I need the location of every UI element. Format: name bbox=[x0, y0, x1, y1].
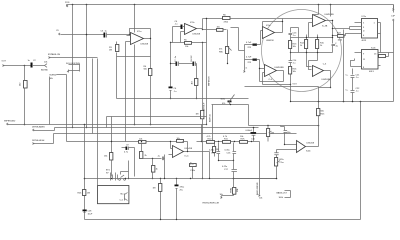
wire below ellipse bbox=[263, 84, 291, 86]
wire bracket bbox=[333, 27, 350, 30]
op-amp U1A bbox=[126, 31, 149, 46]
capacitor C10 series x254 y44.5 bbox=[245, 31, 263, 50]
IC box U2A bbox=[350, 16, 381, 42]
resistor R26 x84.5 bbox=[78, 190, 91, 196]
wire vertical x124.6 bbox=[125, 42, 127, 142]
wire U4B out bbox=[324, 71, 331, 88]
junction top rail x87 bbox=[86, 4, 88, 6]
wire vertical x137 bbox=[134, 5, 136, 125]
svg-text:BASS-DRIVE: BASS-DRIVE bbox=[256, 182, 259, 195]
wire vertical x361 long bbox=[360, 102, 362, 220]
svg-text:9.1V: 9.1V bbox=[293, 84, 298, 86]
svg-text:BLEND: BLEND bbox=[41, 70, 48, 72]
feedback U3A bbox=[263, 22, 283, 27]
wire wiper rail y124.2 bbox=[4, 121, 207, 126]
svg-text:1M: 1M bbox=[87, 193, 90, 195]
wire U1B output bbox=[197, 19, 203, 29]
trimmer 502u bbox=[221, 95, 235, 106]
transistor block box bbox=[98, 186, 129, 204]
capacitor C14 x290 bottom bbox=[289, 52, 298, 65]
wire U6 out bbox=[306, 102, 319, 147]
wire vertical x343.5 bbox=[343, 30, 345, 102]
wire vertical x84.5 long bbox=[84, 125, 86, 220]
resistor R9 y29.8 bbox=[203, 27, 227, 32]
svg-text:BASS-CKT: BASS-CKT bbox=[277, 191, 288, 194]
capacitor C26 0.68u x285 bbox=[284, 127, 292, 145]
resistor R3 vertical x117 bbox=[109, 42, 151, 99]
node C9 bbox=[56, 30, 87, 35]
svg-text:4.7uF: 4.7uF bbox=[246, 57, 252, 59]
wire to input column bbox=[231, 28, 245, 51]
wire U4B wiring bbox=[291, 53, 333, 70]
wire L y104.3 bbox=[212, 105, 319, 126]
capacitor C21 0.47u bbox=[209, 143, 220, 161]
junction bbox=[24, 65, 26, 67]
wire y178.2 to pot bbox=[234, 169, 277, 179]
wire main rail y178.2 bbox=[85, 178, 277, 180]
wire bottom rail bbox=[85, 219, 361, 221]
capacitor C15 x352 bbox=[346, 69, 361, 91]
capacitor C25 0.68u x255 bbox=[246, 128, 257, 142]
svg-text:C10b: C10b bbox=[190, 170, 196, 172]
capacitor C7 bbox=[175, 55, 193, 66]
wire y102 rail bbox=[291, 101, 394, 103]
node BYPASS-ON bbox=[48, 53, 98, 59]
ellipse highlight bbox=[262, 10, 342, 92]
node C1P jumper bbox=[391, 5, 396, 102]
op-amp U3A bbox=[263, 25, 275, 42]
capacitor C3 at x105 bbox=[87, 31, 131, 38]
resistor R4 on x150.4 bbox=[144, 66, 152, 125]
wire left vertical x97.6 bbox=[97, 59, 99, 186]
resistor R7 x196.7 bbox=[192, 64, 198, 99]
wire vertical x87 bbox=[86, 5, 88, 128]
node DRIVE-BASS bbox=[32, 125, 259, 131]
op-amp U6 bbox=[294, 141, 315, 153]
wire vertical x213 bbox=[212, 105, 214, 142]
resistor R19 above U5 bbox=[171, 138, 210, 179]
potentiometer trim x227 bbox=[219, 30, 232, 64]
svg-text:BASS-D: BASS-D bbox=[209, 114, 212, 122]
junction bbox=[129, 34, 130, 35]
resistor R6 y18 bbox=[203, 15, 283, 24]
svg-text:LM4558N: LM4558N bbox=[322, 79, 332, 81]
resistor R25 x318 bbox=[317, 109, 326, 116]
battery BT1 bbox=[106, 161, 129, 181]
capacitor C23b x333 bbox=[332, 38, 339, 53]
capacitor C4 series bbox=[173, 21, 185, 29]
svg-text:1M: 1M bbox=[192, 81, 194, 84]
resistor R8 on x202 bbox=[196, 43, 204, 180]
capacitor C23 0.22u x234 bbox=[222, 161, 237, 179]
svg-text:4.7uF: 4.7uF bbox=[246, 42, 252, 44]
svg-text:0.68uF: 0.68uF bbox=[246, 130, 253, 132]
junction bbox=[318, 125, 320, 127]
capacitor C13 x290 top bbox=[289, 28, 299, 53]
wire top rail bbox=[67, 4, 394, 6]
svg-text:BYPASS-ON: BYPASS-ON bbox=[48, 53, 60, 56]
node POS bbox=[65, 2, 70, 7]
resistor R14 x317.5 bbox=[316, 35, 325, 53]
svg-text:DRIVE-HIGH: DRIVE-HIGH bbox=[32, 140, 45, 142]
wire U4A out + feedback bbox=[260, 69, 284, 82]
junction top rail x137 bbox=[134, 4, 136, 6]
resistor R16 16k x111.5 bbox=[104, 153, 113, 177]
svg-text:LM1458: LM1458 bbox=[307, 143, 315, 145]
svg-text:LM1458: LM1458 bbox=[193, 34, 201, 36]
potentiometer BLEND bbox=[41, 62, 48, 72]
op-amp U4B bbox=[313, 63, 332, 81]
resistor R15 x290 bottom bbox=[289, 63, 298, 85]
resistor R22 bbox=[333, 33, 355, 42]
capacitor C20 polar x176.5 bbox=[175, 179, 185, 220]
svg-text:10uF: 10uF bbox=[88, 214, 93, 216]
wire right edge vertical bbox=[393, 5, 395, 13]
wire wiper down bbox=[49, 79, 51, 125]
svg-text:0.45u: 0.45u bbox=[225, 150, 231, 152]
node input connector bbox=[244, 45, 248, 73]
wire y63.9 bbox=[171, 43, 177, 64]
node OUT bbox=[2, 61, 25, 67]
wire x201.6 up bbox=[201, 125, 203, 142]
resistor small x214 bbox=[213, 143, 220, 157]
wire U3B inputs bbox=[283, 19, 313, 38]
resistor R18 x141.5 bbox=[140, 143, 148, 159]
capacitor C22 0.47u bbox=[225, 143, 237, 161]
potentiometer LEVEL x272 bbox=[267, 126, 275, 142]
capacitor C27 0.022u bbox=[274, 153, 284, 164]
svg-text:LM1458: LM1458 bbox=[141, 44, 149, 46]
svg-text:C1w: C1w bbox=[280, 162, 285, 164]
capacitor C17 polar bbox=[122, 145, 135, 177]
op-amp U4A bbox=[265, 65, 285, 82]
node SOLO FILTER bbox=[66, 63, 80, 73]
wire U3B out bbox=[326, 21, 333, 38]
svg-text:IC-3B: IC-3B bbox=[322, 25, 328, 27]
svg-text:C1P: C1P bbox=[391, 16, 396, 18]
wire feedback loop U1A bbox=[130, 29, 151, 69]
svg-text:1M: 1M bbox=[271, 133, 274, 135]
wire y144 minus input bbox=[285, 144, 297, 146]
op-amp U1B bbox=[185, 22, 201, 36]
resistor R21 x160 bbox=[153, 179, 162, 220]
wire bbox=[380, 23, 382, 53]
svg-text:1M: 1M bbox=[109, 50, 112, 52]
svg-text:LM1458: LM1458 bbox=[185, 148, 193, 150]
resistor R24 x234 bbox=[233, 179, 236, 196]
capacitor C8 polar x170.6 bbox=[169, 64, 178, 99]
svg-text:WIPER-HI: WIPER-HI bbox=[209, 76, 211, 86]
svg-text:0.45u: 0.45u bbox=[209, 150, 215, 152]
svg-text:HIGH-DRIVE-CIR: HIGH-DRIVE-CIR bbox=[203, 203, 220, 205]
wire U6 plus network bbox=[277, 150, 294, 158]
capacitor C16 x352 bbox=[346, 88, 361, 102]
wire vertical x164.5 bbox=[164, 155, 166, 179]
junction top rail x318 bbox=[318, 4, 320, 6]
resistor R23 right of U2B bbox=[379, 53, 389, 58]
svg-text:0.22u: 0.22u bbox=[222, 166, 228, 168]
capacitor C2 bbox=[25, 60, 45, 68]
resistor R12 x290 top bbox=[289, 35, 298, 53]
potentiometer BLEND2 bbox=[50, 75, 67, 142]
wire plus input bbox=[181, 32, 185, 43]
potentiometer x274 bbox=[275, 158, 281, 169]
node HIGH DRIVE CIR bbox=[203, 194, 234, 205]
resistor row y141.5 right bbox=[197, 136, 223, 144]
wire U3A out bbox=[275, 22, 283, 33]
svg-text:C7 .1u: C7 .1u bbox=[175, 55, 177, 62]
capacitor C9b bbox=[191, 54, 197, 65]
svg-text:C8 337: C8 337 bbox=[191, 54, 193, 62]
svg-text:LM4558: LM4558 bbox=[266, 40, 274, 42]
svg-text:LM4558N: LM4558N bbox=[325, 14, 335, 16]
svg-text:R1K: R1K bbox=[241, 138, 246, 140]
node BASS DRIVE CIR bbox=[256, 142, 263, 200]
svg-text:POS: POS bbox=[65, 2, 70, 4]
wire vertical x206.5 bbox=[206, 19, 208, 125]
node BASS-CKT bbox=[277, 191, 291, 200]
capacitor C28 polar x84.5 bbox=[83, 210, 93, 216]
wire y99.5 rail bbox=[117, 98, 249, 100]
resistor R13 x306.5 bbox=[300, 35, 308, 53]
svg-text:DRIVE-BASS: DRIVE-BASS bbox=[32, 125, 45, 128]
svg-text:OUT: OUT bbox=[2, 61, 7, 63]
junction wiper rail bbox=[24, 124, 26, 126]
resistor R17 10k y141.5 bbox=[67, 139, 171, 144]
wire y160.9 bbox=[219, 160, 234, 162]
resistor R20 x153 bbox=[152, 159, 159, 179]
capacitor C18 on y158.6 bbox=[141, 156, 165, 161]
op-amp U3B bbox=[313, 14, 335, 27]
svg-text:1M: 1M bbox=[196, 114, 199, 116]
svg-text:WIPER-MID: WIPER-MID bbox=[4, 121, 16, 123]
svg-text:.022u: .022u bbox=[279, 159, 285, 161]
wire y116 bbox=[107, 117, 207, 153]
svg-text:DRIVE-P: DRIVE-P bbox=[204, 102, 206, 111]
svg-text:TRIM: TRIM bbox=[231, 188, 233, 193]
resistor R2 vertical x25 bbox=[20, 66, 28, 125]
wire vertical x73 bbox=[72, 4, 74, 6]
capacitor C11 series x254 y59.4 bbox=[245, 57, 260, 82]
op-amp U5 bbox=[169, 146, 193, 158]
svg-text:1M: 1M bbox=[153, 188, 156, 190]
svg-text:BLEND: BLEND bbox=[50, 75, 57, 77]
svg-text:LM4558N: LM4558N bbox=[275, 67, 285, 69]
IC box U2B bbox=[351, 48, 381, 74]
resistor R5 y42.7 bbox=[171, 40, 207, 49]
node DRIVE-HIGH bbox=[32, 134, 297, 145]
potentiometer C10b bbox=[190, 163, 197, 179]
